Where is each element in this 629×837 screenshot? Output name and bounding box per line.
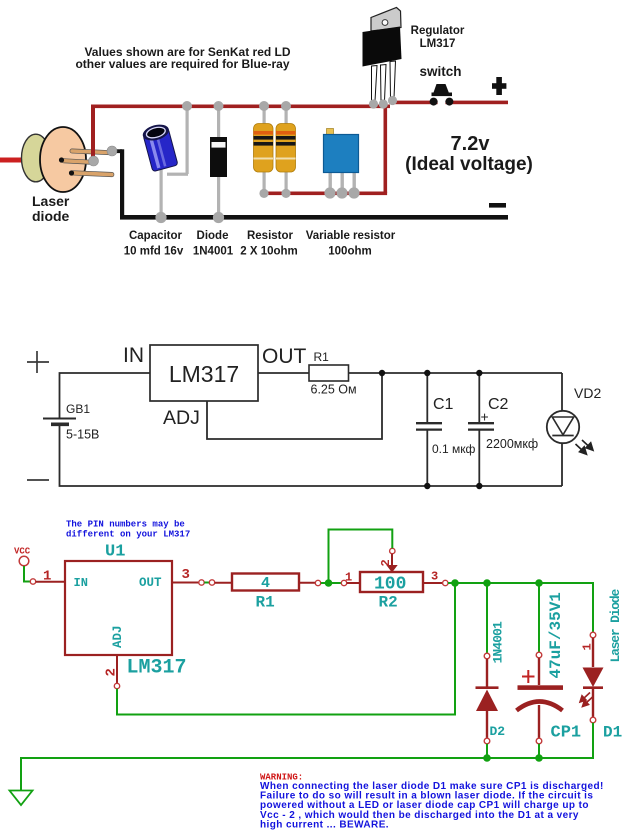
regulator U1 LM317 box bbox=[65, 561, 172, 655]
svg-text:4: 4 bbox=[261, 575, 270, 592]
diode 1N4001 body bbox=[210, 137, 227, 177]
wire top net bbox=[60, 373, 563, 418]
svg-text:D2: D2 bbox=[490, 724, 506, 739]
svg-text:ADJ: ADJ bbox=[163, 407, 200, 429]
resistor R b bbox=[276, 124, 296, 173]
resistor R a bbox=[254, 124, 274, 173]
wire red left drop to laser diode bbox=[91, 105, 95, 163]
node junction a bbox=[325, 579, 333, 587]
wire d2 to rail bbox=[486, 744, 488, 758]
minus symbol bbox=[27, 479, 49, 481]
svg-text:2: 2 bbox=[379, 559, 393, 566]
svg-text:IN: IN bbox=[74, 576, 88, 590]
wire d1 to rail bbox=[21, 723, 593, 790]
wire cp1 branch bbox=[538, 583, 540, 652]
svg-text:Resistor: Resistor bbox=[247, 230, 294, 242]
junction laser pin to black wire bbox=[107, 146, 117, 156]
svg-text:100ohm: 100ohm bbox=[328, 246, 371, 258]
laser diode beam bbox=[0, 158, 23, 163]
junction laser pin to red wire bbox=[89, 156, 99, 166]
capacitor 10mfd body bbox=[141, 122, 178, 172]
pot R2 bbox=[360, 572, 423, 592]
svg-text:0.1 мкф: 0.1 мкф bbox=[432, 442, 476, 456]
wire adj feedback bbox=[117, 583, 455, 715]
svg-text:OUT: OUT bbox=[262, 345, 307, 368]
label 7.2v ideal voltage bbox=[405, 133, 533, 175]
svg-text:5-15B: 5-15B bbox=[66, 428, 99, 442]
wire red ADJ drop bbox=[384, 104, 388, 193]
svg-text:LM317: LM317 bbox=[169, 361, 239, 387]
node dot out bbox=[379, 370, 385, 376]
pin circle IN bbox=[30, 579, 35, 584]
junction LM317 leg 3 bbox=[388, 96, 397, 105]
svg-text:high current ... BEWARE.: high current ... BEWARE. bbox=[260, 819, 389, 830]
diode D2 bbox=[484, 653, 490, 659]
capacitor C leads bbox=[160, 107, 189, 216]
wire main output net bbox=[448, 583, 593, 632]
LED VD2 bbox=[547, 373, 579, 486]
label diode bbox=[193, 230, 234, 258]
wire cp1 to rail bbox=[538, 744, 540, 758]
plus symbol bbox=[27, 351, 49, 373]
resistor R1 box bbox=[309, 365, 349, 381]
wire out to r1 bbox=[204, 582, 209, 584]
svg-text:6.25 Ом: 6.25 Ом bbox=[311, 383, 357, 397]
svg-text:other values are required for: other values are required for Blue-ray bbox=[75, 57, 289, 71]
svg-text:U1: U1 bbox=[105, 543, 125, 562]
svg-text:LM317: LM317 bbox=[127, 657, 187, 680]
minus terminal bbox=[489, 203, 506, 208]
svg-text:47uF/35V1: 47uF/35V1 bbox=[547, 592, 565, 678]
svg-text:2 X 10ohm: 2 X 10ohm bbox=[240, 246, 298, 258]
svg-text:1: 1 bbox=[43, 569, 51, 585]
pin OUT lead bbox=[172, 582, 199, 584]
svg-text:D1: D1 bbox=[603, 724, 622, 742]
svg-text:2200мкф: 2200мкф bbox=[486, 437, 538, 451]
plus terminal bbox=[492, 77, 506, 95]
junction gray cap top bbox=[182, 101, 192, 111]
label variable resistor bbox=[306, 230, 396, 258]
svg-text:ADJ: ADJ bbox=[111, 625, 125, 648]
capacitor C1 bbox=[416, 373, 442, 486]
node junction d2 bbox=[483, 579, 491, 587]
junction pot leg 1 bbox=[324, 187, 335, 198]
label resistor bbox=[240, 230, 298, 258]
pin ADJ lead bbox=[116, 655, 118, 683]
node junction adj bbox=[451, 579, 459, 587]
label Regulator LM317 bbox=[411, 25, 465, 50]
svg-text:GB1: GB1 bbox=[66, 402, 90, 416]
svg-text:LM317: LM317 bbox=[420, 38, 456, 50]
junction resistor a top bbox=[259, 101, 269, 111]
diode 1N4001 leads bbox=[217, 107, 220, 217]
svg-text:R2: R2 bbox=[379, 594, 398, 612]
svg-text:VD2: VD2 bbox=[574, 385, 601, 401]
svg-text:OUT: OUT bbox=[139, 576, 162, 590]
laser D1 emission arrows bbox=[580, 693, 593, 707]
junction resistor b top bbox=[281, 101, 291, 111]
wire wiper loop bbox=[329, 530, 393, 581]
label capacitor bbox=[124, 230, 184, 258]
capacitor C2 bbox=[468, 373, 494, 486]
svg-text:Laser: Laser bbox=[32, 193, 70, 209]
svg-text:C2: C2 bbox=[488, 396, 509, 413]
svg-text:switch: switch bbox=[419, 64, 461, 79]
resistor leads bbox=[263, 107, 288, 192]
svg-text:(Ideal voltage): (Ideal voltage) bbox=[405, 154, 533, 175]
svg-text:Capacitor: Capacitor bbox=[129, 230, 183, 242]
wire vcc to in bbox=[24, 566, 30, 582]
svg-text:3: 3 bbox=[182, 567, 190, 583]
note text: values shown bbox=[75, 45, 290, 71]
capacitor CP1 bbox=[536, 652, 542, 658]
regulator box LM317 bbox=[150, 345, 258, 401]
svg-text:Regulator: Regulator bbox=[411, 25, 465, 37]
wire r1 to r2 bbox=[321, 582, 342, 584]
ground symbol bbox=[10, 791, 33, 806]
junction gray cap bottom bbox=[155, 212, 166, 223]
junction gray diode top bbox=[214, 101, 224, 111]
wire red resistor bottom bus bbox=[261, 192, 387, 196]
junction pot leg 2 bbox=[336, 187, 347, 198]
svg-text:Variable resistor: Variable resistor bbox=[306, 230, 396, 242]
laser diode D1 bbox=[590, 632, 596, 638]
svg-text:IN: IN bbox=[123, 344, 144, 367]
svg-text:+: + bbox=[481, 409, 489, 425]
svg-text:Diode: Diode bbox=[197, 230, 229, 242]
svg-text:1N4001: 1N4001 bbox=[491, 621, 506, 664]
svg-text:7.2v: 7.2v bbox=[451, 133, 491, 155]
junction LM317 leg 1 bbox=[369, 99, 378, 108]
junction gray diode bottom bbox=[213, 212, 224, 223]
svg-text:R1: R1 bbox=[256, 594, 275, 612]
svg-text:1N4001: 1N4001 bbox=[193, 246, 234, 258]
svg-text:CP1: CP1 bbox=[551, 724, 582, 743]
resistor R1 bbox=[232, 574, 299, 591]
pin 1 lead bbox=[36, 581, 65, 583]
label laser diode bbox=[32, 193, 70, 224]
svg-text:R1: R1 bbox=[314, 350, 330, 364]
svg-text:100: 100 bbox=[374, 575, 406, 595]
svg-text:C1: C1 bbox=[433, 396, 454, 413]
svg-text:10 mfd 16v: 10 mfd 16v bbox=[124, 246, 184, 258]
svg-text:Laser Diode: Laser Diode bbox=[608, 588, 623, 662]
resistor R1 lead bbox=[215, 582, 232, 584]
wire red top rail bbox=[91, 101, 508, 109]
svg-text:1: 1 bbox=[581, 643, 595, 650]
variable resistor body bbox=[327, 129, 334, 136]
junction LM317 leg 2 bbox=[379, 99, 388, 108]
svg-text:3: 3 bbox=[431, 570, 438, 584]
note pin numbers blue bbox=[66, 520, 190, 540]
junction pot leg 3 bbox=[348, 187, 359, 198]
wire ADJ feedback bbox=[207, 373, 382, 439]
svg-text:VCC: VCC bbox=[14, 547, 31, 557]
svg-text:diode: diode bbox=[32, 208, 70, 224]
svg-text:The PIN numbers may be: The PIN numbers may be bbox=[66, 520, 185, 530]
pot R2 right lead bbox=[423, 582, 442, 584]
wire d2 branch bbox=[486, 583, 488, 653]
resistor R1 right lead bbox=[299, 582, 315, 584]
regulator LM317 package bbox=[363, 8, 402, 102]
wire black from laser diode bbox=[112, 149, 508, 219]
switch pushbutton bbox=[430, 84, 454, 106]
pot R2 wiper bbox=[390, 548, 395, 553]
pot R2 left lead bbox=[347, 582, 360, 584]
variable resistor legs bbox=[329, 172, 356, 190]
LED arrows bbox=[576, 440, 594, 454]
wire bottom net bbox=[60, 426, 563, 486]
junction resistor b bottom bbox=[281, 189, 290, 198]
junction resistor a bottom bbox=[259, 189, 268, 198]
svg-text:2: 2 bbox=[104, 668, 120, 676]
battery GB1 bbox=[43, 419, 76, 425]
svg-text:different on your LM317: different on your LM317 bbox=[66, 530, 190, 540]
laser diode bbox=[22, 127, 115, 192]
node junction cp1 bbox=[535, 579, 543, 587]
